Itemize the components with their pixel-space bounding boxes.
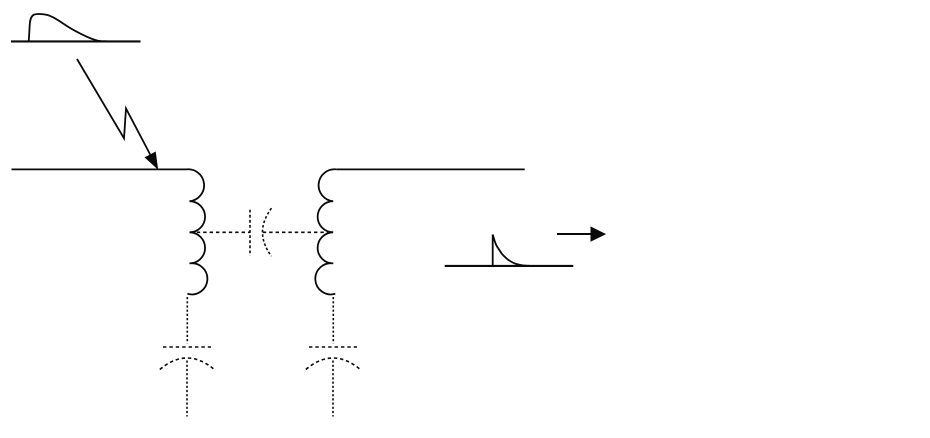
stray capacitance C1 to ground (below L1) xyxy=(160,347,215,417)
inductor L2 (right winding) xyxy=(315,169,336,294)
arrow: output direction xyxy=(557,227,605,241)
wire: dashed link from coupling capacitor to L2 xyxy=(263,231,332,233)
surge input waveform (8/20us impulse) xyxy=(29,14,107,41)
surge waveform baseline xyxy=(11,40,141,42)
wire: dashed lead below L2 xyxy=(332,297,334,344)
output waveform baseline xyxy=(445,265,574,267)
inductor L1 (left winding) xyxy=(186,169,207,294)
wire: dashed link from L1 to coupling capacitor xyxy=(197,231,250,233)
wire: dashed lead below L1 xyxy=(186,297,188,344)
wire: right line (secondary conductor) xyxy=(337,168,525,170)
output spike waveform (coupled transient) xyxy=(493,235,529,266)
stray coupling capacitance C (between windings) xyxy=(250,208,272,256)
stray capacitance C2 to ground (below L2) xyxy=(306,347,361,417)
wire: left line (primary conductor) xyxy=(12,168,187,170)
lightning strike arrow xyxy=(77,59,158,169)
